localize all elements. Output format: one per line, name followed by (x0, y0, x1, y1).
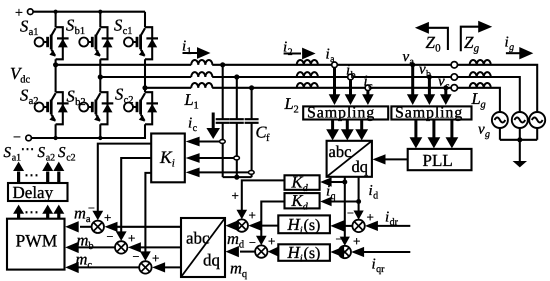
svg-text:g: g (474, 43, 480, 55)
label md (227, 229, 245, 251)
arrow Sampling2 out a (410, 120, 423, 149)
svg-text:g: g (509, 42, 514, 53)
transistor Sa1 (IGBT with diode) (35, 27, 69, 59)
svg-text:i: i (369, 183, 373, 199)
label id (369, 183, 379, 202)
node: phase c tap at leg (142, 85, 147, 90)
svg-text:(s): (s) (304, 217, 321, 234)
node: neutral bus junction (517, 137, 522, 142)
svg-text:v: v (438, 74, 445, 90)
label ib (346, 63, 356, 82)
svg-text:−: − (133, 250, 140, 264)
svg-text:m: m (230, 259, 242, 278)
inductor L1 phase a coil (191, 60, 212, 65)
label vb (419, 62, 431, 81)
source vg phase b (512, 112, 528, 128)
wire: mq sum to dq-abc box (225, 246, 255, 257)
current tap ia (329, 62, 341, 105)
arrow Sampling1 out a (326, 120, 339, 141)
inductor L2 phase c coil (297, 83, 318, 88)
svg-text:qr: qr (376, 264, 385, 275)
wire: mb to PWM (65, 242, 115, 253)
label Z0 (426, 33, 442, 55)
inductor L1 phase b coil (191, 72, 212, 77)
minus sign Kd lower contribution (249, 236, 256, 250)
svg-text:i: i (300, 253, 303, 264)
svg-text:L: L (184, 90, 194, 109)
svg-text:S: S (38, 145, 46, 161)
wire: Ki input b from Cf branch b (186, 153, 240, 163)
node: Cf branch c junction (249, 85, 254, 90)
wire: phase b line (100, 77, 520, 112)
source vg phase a (529, 112, 545, 128)
svg-text:Sampling: Sampling (395, 105, 463, 122)
svg-text:i: i (326, 47, 330, 63)
svg-text:K: K (291, 173, 304, 192)
block Kd lower (285, 191, 320, 213)
inductor Lg phase a coil (470, 60, 491, 65)
wire: id to Kd lower (320, 197, 358, 207)
DC plus terminal (15, 6, 33, 21)
svg-text:m: m (227, 229, 239, 248)
svg-text:1: 1 (187, 46, 192, 57)
svg-text:i: i (505, 35, 509, 51)
wire: Ki output c to sum mc (140, 173, 151, 261)
impedance arrow Zg (461, 21, 492, 52)
label Sc2 (115, 85, 134, 107)
current arrow ig (505, 35, 534, 60)
current arrow i1 (182, 39, 211, 59)
plus sign mq right input (268, 234, 275, 249)
svg-text:a2: a2 (29, 96, 39, 107)
svg-text:dq: dq (352, 157, 369, 176)
wire: iqr reference input (351, 247, 410, 257)
label va (403, 49, 415, 68)
arrow Delay to Sc2 (53, 162, 64, 183)
label Sc2 (gate signals) (58, 145, 76, 164)
svg-text:S: S (20, 86, 28, 105)
svg-text:dc: dc (20, 75, 30, 86)
svg-text:Sampling: Sampling (307, 105, 375, 122)
minus sign at sum mc (133, 250, 140, 264)
svg-text:S: S (58, 145, 66, 161)
grid terminal b (451, 74, 457, 80)
arrow Delay to Sa1 (13, 162, 24, 183)
label idr (385, 210, 399, 229)
summing junction mc (139, 261, 151, 273)
arrow Sampling1 out b (341, 120, 354, 141)
svg-text:S: S (4, 145, 12, 161)
wire: Ki input a from Cf branch a (186, 137, 226, 147)
svg-text:i: i (326, 184, 330, 200)
svg-text:dq: dq (203, 251, 221, 270)
svg-text:L: L (471, 89, 481, 108)
wire: id output drop (354, 177, 364, 220)
dots in gate signal labels (21, 143, 35, 158)
svg-text:a: a (86, 214, 91, 225)
svg-text:+: + (353, 234, 360, 249)
inductor L2 phase b coil (297, 72, 318, 77)
svg-text:c: c (87, 260, 92, 271)
wire: box output b to sum mb (128, 242, 181, 252)
svg-text:d: d (373, 191, 378, 202)
label Lg (471, 89, 486, 111)
wire: source neutral bus (500, 128, 537, 161)
svg-text:abc: abc (186, 229, 210, 248)
wire: Cf branch a (222, 65, 224, 177)
plus sign at sum mb (128, 231, 135, 246)
arrow PWM to Delay 1 (13, 205, 24, 219)
svg-text:⋯: ⋯ (21, 143, 35, 158)
dots between Delay output arrows (24, 168, 39, 184)
svg-text:v: v (403, 49, 410, 65)
label Sb1 (66, 16, 85, 38)
wire: Hi lower output to mq sum (268, 246, 280, 257)
svg-text:a: a (330, 54, 335, 65)
svg-text:i: i (385, 210, 389, 226)
plus sign at sum ma (104, 210, 111, 225)
svg-text:+: + (104, 210, 111, 225)
wire: Kd lower output to mq sum (256, 202, 285, 246)
label L2 (284, 94, 299, 116)
label iqr (372, 257, 386, 276)
wire: DC top rail (33, 11, 145, 13)
transistor Sb1 (IGBT with diode) (79, 27, 113, 59)
svg-text:v: v (419, 62, 426, 78)
svg-text:abc: abc (329, 142, 352, 161)
node: Cf branch b junction (234, 74, 239, 79)
label Sa2 (20, 86, 39, 108)
current tap ib (345, 74, 357, 105)
arrow PWM to Delay 3 (53, 205, 64, 219)
wire: DC bottom rail (31, 124, 145, 138)
ground (513, 161, 527, 167)
svg-text:c: c (368, 81, 373, 92)
svg-text:i: i (188, 116, 192, 132)
wire: phase c line (145, 88, 500, 113)
wire: iq output drop (340, 177, 350, 246)
label mq (230, 259, 248, 281)
node: bottom rail leg a junction (54, 136, 58, 140)
label Sa1 (20, 17, 39, 39)
arrow PWM to Delay 2 (42, 205, 53, 219)
svg-text:g: g (485, 129, 490, 140)
wire: Ki output b to sum mb (116, 158, 151, 241)
svg-text:c2: c2 (66, 153, 75, 164)
current arrow i2 (283, 40, 316, 60)
transistor Sa2 (IGBT with diode) (35, 92, 69, 124)
node: phase a tap at leg (53, 62, 58, 67)
summing junction mb (115, 241, 127, 253)
svg-text:Z: Z (426, 33, 436, 52)
wire: Ki output a to sum ma (92, 144, 151, 221)
svg-text:PLL: PLL (423, 151, 453, 170)
wire: leg a segments (55, 12, 57, 138)
svg-text:S: S (66, 16, 74, 35)
wire: box output a to sum ma (105, 222, 182, 232)
svg-text:m: m (74, 204, 86, 223)
block Ki (151, 134, 185, 183)
svg-text:⋯: ⋯ (24, 168, 39, 184)
svg-text:i: i (172, 158, 175, 170)
block abc to dq transform (327, 141, 372, 177)
svg-text:⋯: ⋯ (24, 205, 39, 221)
svg-text:−: − (249, 236, 256, 250)
inductor Lg phase c coil (470, 83, 491, 88)
svg-text:Delay: Delay (13, 183, 54, 202)
node: iq tap (342, 180, 347, 185)
svg-text:b: b (351, 70, 356, 81)
current tap ic line (362, 85, 374, 105)
summing junction iq error (339, 246, 351, 258)
node: phase b tap at leg (98, 74, 103, 79)
block Sampling currents (303, 105, 388, 122)
wire: Cf branch b (236, 77, 238, 177)
plus sign id sum (367, 210, 374, 225)
block PLL (408, 149, 472, 170)
capacitor Cf phase a plates (216, 119, 230, 123)
label Sb2 (67, 87, 86, 109)
label Sa1 (gate signals) (4, 145, 22, 164)
svg-text:−: − (107, 230, 114, 244)
source vg phase c (492, 112, 508, 128)
wire: idr reference input (365, 221, 410, 231)
wire: Kd upper output to md sum (237, 180, 285, 219)
transistor Sc1 (IGBT with diode) (124, 27, 158, 59)
svg-text:S: S (115, 85, 123, 104)
svg-text:L: L (284, 94, 294, 113)
capacitor Cf phase c plates (245, 119, 259, 123)
summing junction mq (255, 245, 267, 257)
svg-text:−: − (347, 206, 354, 220)
wire: Cf star connection (223, 176, 252, 178)
wire: box output c to sum mc (152, 262, 181, 272)
wire: Hi upper output to md sum (248, 221, 277, 231)
block dq to abc transform (181, 218, 225, 277)
plus sign md right input (249, 208, 256, 223)
node: top rail leg b junction (98, 10, 102, 14)
grid terminal c (451, 85, 457, 91)
wire: PLL to abc-dq (373, 154, 408, 164)
dots between PWM-Delay arrows (24, 205, 39, 221)
inductor L2 phase a coil (297, 60, 318, 65)
svg-text:S: S (20, 17, 28, 36)
wire: iq to Kd upper (320, 177, 345, 187)
svg-text:−: − (88, 201, 95, 215)
label Zg (464, 33, 480, 55)
label ic line (364, 74, 374, 93)
wire: leg c segments (144, 12, 146, 93)
svg-text:+: + (249, 208, 256, 223)
summing junction id error (352, 220, 364, 232)
wire: Cf branch c (251, 88, 253, 177)
svg-text:dr: dr (390, 217, 399, 228)
svg-text:K: K (291, 191, 304, 210)
minus sign iq sum (336, 232, 343, 246)
wire: Ki input c from Cf branch c (186, 168, 255, 178)
impedance arrow Z0 (415, 22, 448, 50)
block Hi(s) lower (278, 243, 330, 265)
svg-text:i: i (364, 74, 368, 90)
label mc (76, 250, 93, 272)
wire: md sum to dq-abc box (225, 220, 239, 231)
svg-text:b: b (426, 69, 431, 80)
label vc (438, 74, 450, 93)
DC minus terminal (13, 131, 31, 146)
svg-text:c: c (445, 81, 450, 92)
wire: id sum to Hi upper (330, 220, 352, 231)
svg-text:+: + (232, 188, 239, 203)
svg-text:1: 1 (194, 101, 199, 112)
svg-text:c2: c2 (124, 95, 134, 106)
arrow Delay to Sa2 (42, 162, 53, 183)
node: id tap (356, 199, 361, 204)
svg-text:d: d (239, 240, 245, 251)
label Vdc (10, 64, 30, 86)
inductor L1 phase c coil (191, 83, 212, 88)
node: Cf star point (234, 175, 239, 180)
label mb (77, 231, 94, 253)
svg-text:c1: c1 (123, 26, 133, 37)
voltage tap vb (424, 75, 436, 106)
plus sign at sum mc (152, 251, 159, 266)
label vg (478, 122, 490, 141)
block PWM (7, 219, 65, 270)
summing junction ma (92, 221, 104, 233)
svg-text:a1: a1 (29, 27, 39, 38)
svg-text:PWM: PWM (16, 231, 58, 251)
svg-text:i: i (346, 63, 350, 79)
capacitor Cf phase b plates (230, 119, 244, 123)
svg-text:a2: a2 (46, 153, 55, 164)
minus sign id sum (347, 206, 354, 220)
wire: leg b segments (99, 12, 101, 138)
svg-text:b2: b2 (75, 97, 86, 108)
label ma with minus sign (74, 201, 95, 225)
block Sampling voltages (391, 105, 471, 122)
wire: ma to PWM (65, 221, 91, 232)
svg-text:+: + (128, 231, 135, 246)
inductor Lg phase b coil (470, 72, 491, 77)
block Kd upper (285, 173, 320, 195)
svg-text:b1: b1 (75, 26, 86, 37)
label ia (326, 47, 336, 66)
node: Cf branch a junction (220, 62, 225, 67)
plus sign iq sum (353, 234, 360, 249)
minus sign at sum mb (107, 230, 114, 244)
svg-text:+: + (152, 251, 159, 266)
svg-text:c: c (193, 123, 198, 134)
arrow Sampling1 out c (355, 120, 368, 141)
label Sa2 (gate signals) (38, 145, 56, 164)
svg-text:2: 2 (294, 105, 299, 116)
svg-text:v: v (478, 122, 485, 138)
svg-text:Z: Z (464, 33, 474, 52)
label Sc1 (114, 16, 133, 38)
wire: phase a line (56, 65, 538, 113)
transistor Sc2 (IGBT with diode) (124, 92, 158, 124)
svg-text:0: 0 (435, 43, 441, 55)
svg-text:(s): (s) (304, 245, 321, 262)
wire: mc to PWM (65, 262, 139, 273)
svg-text:f: f (266, 133, 270, 144)
voltage tap vc (440, 85, 452, 105)
svg-text:−: − (336, 232, 343, 246)
svg-text:a: a (410, 57, 415, 68)
grid terminal a (451, 62, 457, 68)
plus sign Kd upper contribution (232, 188, 239, 203)
transistor Sb2 (IGBT with diode) (79, 92, 113, 124)
node: top rail leg a junction (54, 10, 58, 14)
svg-text:S: S (67, 87, 75, 106)
svg-text:+: + (268, 234, 275, 249)
svg-text:q: q (242, 269, 248, 280)
current arrow ic (capacitor current) (188, 113, 220, 140)
svg-text:g: g (481, 100, 486, 111)
arrow Sampling2 out c (446, 120, 459, 149)
svg-text:i: i (300, 226, 303, 237)
svg-text:i: i (372, 257, 376, 273)
label L1 (184, 90, 199, 112)
node: bottom rail leg b junction (98, 136, 102, 140)
label Cf (256, 123, 271, 145)
arrow Sampling2 out b (428, 120, 441, 149)
wire: iq sum to Hi lower (330, 246, 344, 257)
svg-text:+: + (367, 210, 374, 225)
svg-text:S: S (114, 16, 122, 35)
voltage tap va (407, 62, 419, 105)
block Hi(s) upper (278, 215, 330, 237)
label iq (326, 184, 336, 203)
block Delay (8, 183, 68, 202)
summing junction md (236, 219, 248, 231)
